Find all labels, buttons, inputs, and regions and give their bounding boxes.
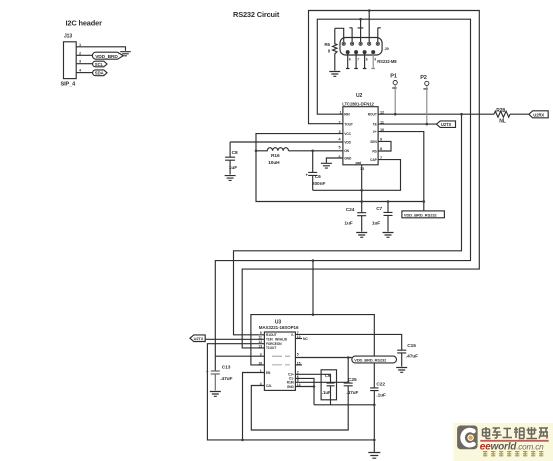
svg-text:VDD_BRD: VDD_BRD — [95, 54, 118, 60]
svg-text:ROUT: ROUT — [368, 113, 377, 117]
wire DB9 pin8 down — [363, 54, 367, 69]
logo chinese title strokes — [483, 427, 549, 439]
wire R28 to U2RX — [510, 113, 529, 115]
U3 pin numbers — [258, 331, 300, 387]
svg-text:3: 3 — [79, 60, 81, 64]
inductor R16 — [256, 148, 289, 151]
svg-text:CAP: CAP — [370, 158, 378, 162]
watermark logo eeworld — [454, 423, 553, 461]
ground below R6 — [329, 72, 340, 77]
svg-text:RS232-M8: RS232-M8 — [377, 59, 397, 64]
svg-text:13: 13 — [360, 167, 364, 171]
svg-text:NL: NL — [499, 118, 506, 124]
svg-text:R1OUT: R1OUT — [266, 333, 277, 337]
svg-text:C6: C6 — [315, 174, 321, 180]
capacitor C8 — [225, 142, 235, 175]
svg-text:TOUT: TOUT — [344, 123, 353, 127]
ground below C8 — [225, 176, 236, 181]
svg-text:eeworld.com.cn: eeworld.com.cn — [480, 442, 544, 453]
ground below C13 — [210, 392, 221, 397]
U2 pin numbers — [339, 110, 385, 171]
svg-text:.1uF: .1uF — [322, 390, 331, 395]
svg-text:200nF: 200nF — [312, 181, 326, 187]
svg-text:1: 1 — [340, 110, 342, 114]
svg-text:VCC: VCC — [344, 132, 351, 136]
svg-text:.47uF: .47uF — [220, 376, 232, 382]
svg-text:10uH: 10uH — [268, 160, 280, 166]
svg-text:.47uF: .47uF — [346, 390, 358, 396]
DB9 pin circles top row — [342, 42, 379, 45]
ground below C15 — [396, 368, 407, 373]
wire DB9 pin5 up no-connect — [378, 28, 381, 42]
svg-text:1: 1 — [79, 43, 81, 47]
wire U2 ROUT net down to U3 pin9 R1OUT — [234, 114, 462, 335]
capacitor C9 box — [321, 370, 336, 400]
ground below C7 — [383, 233, 394, 238]
pin 4 stub J13 — [76, 72, 80, 74]
svg-text:SDA: SDA — [95, 71, 104, 76]
logo red underline — [480, 440, 548, 442]
svg-text:3: 3 — [339, 130, 341, 134]
op-amp U2 body — [343, 107, 378, 165]
wire DB9 pin6 down — [346, 54, 350, 69]
svg-text:C9: C9 — [325, 373, 331, 378]
capacitor C9 — [327, 383, 335, 405]
svg-text:7: 7 — [380, 156, 382, 160]
power label VDD_BRD_RS232 (oval) — [352, 356, 397, 363]
wire U3 V- to C15 — [295, 334, 401, 350]
svg-text:8: 8 — [366, 57, 368, 61]
wire U2 pin12 ROUT to R28 — [378, 113, 494, 115]
U2 right pin names — [368, 113, 378, 162]
svg-text:11: 11 — [258, 336, 262, 340]
svg-text:SCL: SCL — [95, 62, 104, 67]
gnd rail to main vertical — [314, 404, 374, 406]
net label U2RX — [529, 111, 548, 118]
U3 right pin names — [287, 333, 295, 389]
net label SDA — [93, 70, 107, 76]
wire U3 C1- down to gnd rail — [295, 378, 314, 404]
svg-text:J13: J13 — [64, 34, 72, 40]
svg-text:T1OUT: T1OUT — [266, 346, 276, 350]
pin 2 stub J13 — [76, 54, 80, 56]
svg-text:LTC2801-DFN12: LTC2801-DFN12 — [342, 101, 374, 106]
capacitor C25 — [344, 358, 353, 386]
svg-text:C15: C15 — [407, 343, 416, 349]
U3 pin5 stub / wire to VDD oval — [295, 357, 351, 359]
wire J13 pin4 to SDA — [81, 72, 93, 74]
svg-text:INVALID: INVALID — [275, 338, 288, 342]
net label VDD_BRD — [92, 52, 123, 60]
wire DB9 pin9 down — [371, 54, 375, 69]
wire U3 pin3 stub — [215, 355, 264, 357]
U3 body — [264, 332, 295, 390]
wire U2 pin3 loop to U2 pin10 V+ — [256, 132, 424, 202]
wire U3 C1+ to C9 — [295, 374, 330, 383]
svg-text:5: 5 — [297, 353, 299, 357]
svg-text:ON: ON — [344, 149, 349, 153]
wire U3 pin1 EN to gnd rail — [243, 373, 265, 440]
svg-text:T1IN: T1IN — [266, 338, 273, 342]
wire J13 pin3 to SCL — [81, 63, 93, 65]
svg-text:U2TX: U2TX — [194, 336, 204, 341]
power label VDD_BRD_RS232 (box) — [402, 211, 445, 218]
DB9 pin numbers bottom — [349, 57, 377, 61]
svg-text:6: 6 — [339, 155, 341, 159]
wire DB9 pin4 up to outer border — [368, 11, 370, 43]
U3 NC stub pin10 — [295, 338, 302, 340]
U3 internal dashes — [272, 356, 290, 365]
svg-text:R28: R28 — [496, 108, 505, 114]
ground below U2 pin6 — [321, 163, 332, 168]
svg-text:1: 1 — [260, 369, 262, 373]
wire U2 pin1 loop via inner border to U3 pin3/C13 — [215, 19, 470, 370]
wire DB9 pin2 up no-connect — [349, 28, 352, 42]
wire V+ node down to VDD box — [423, 202, 425, 211]
wire DB9 pin3 up to inner border — [358, 19, 364, 42]
wire U2TX to U3 pin11 T1IN — [205, 338, 264, 340]
capacitor C7 — [384, 202, 393, 232]
svg-text:SEN: SEN — [370, 140, 377, 144]
connector J13 body — [64, 42, 77, 79]
capacitor C15 — [397, 350, 406, 366]
svg-text:C8: C8 — [232, 150, 238, 156]
resistor R6 — [333, 28, 337, 70]
wire U3 FORCEON to gnd rail — [207, 344, 374, 440]
svg-text:P2: P2 — [420, 75, 427, 81]
wire R6 top to DB9 pin1 — [335, 28, 344, 42]
svg-text:P1: P1 — [390, 74, 397, 80]
U3 pin15 stub — [295, 364, 302, 366]
logo icon square — [457, 426, 478, 450]
wire J13 pin1 to ground — [81, 47, 126, 51]
wire U2 pin5 to inductor — [289, 150, 343, 152]
net label U2TX (upper) — [437, 121, 456, 128]
ground GND1 — [120, 52, 131, 56]
svg-text:V-: V- — [291, 333, 294, 337]
svg-text:C2L: C2L — [266, 384, 272, 388]
svg-text:MAX3221-16SOP16: MAX3221-16SOP16 — [259, 325, 299, 330]
svg-text:8: 8 — [380, 147, 382, 151]
logo C shape — [463, 430, 474, 445]
svg-text:.47uF: .47uF — [406, 354, 418, 360]
svg-text:13: 13 — [258, 344, 262, 348]
svg-text:NC: NC — [303, 337, 308, 341]
wire U2 pin9 to pin8 loop — [378, 141, 391, 151]
svg-text:11: 11 — [380, 120, 384, 124]
capacitor C24 — [357, 202, 366, 232]
svg-text:9: 9 — [260, 331, 262, 335]
svg-text:5: 5 — [339, 145, 341, 149]
svg-text:1uF: 1uF — [344, 221, 352, 227]
svg-text:10: 10 — [380, 128, 384, 132]
svg-text:R16: R16 — [271, 153, 280, 159]
svg-text:GND: GND — [344, 156, 352, 160]
svg-text:2: 2 — [339, 120, 341, 124]
svg-text:3: 3 — [260, 353, 262, 357]
svg-text:U2TX: U2TX — [441, 122, 452, 127]
ground main (bottom) — [368, 453, 380, 459]
wire U3 pin16 loop over top to C22 and ground — [251, 315, 374, 388]
svg-text:U2: U2 — [356, 93, 363, 99]
wire U2 pin4 VDD to C8 — [230, 141, 343, 143]
wire branch inner border to U3 top loop — [312, 261, 314, 315]
pin 3 stub J13 — [76, 63, 80, 65]
wire U3 R1IN to C25 — [295, 381, 348, 383]
svg-text:C13: C13 — [222, 365, 231, 371]
wire U3 pin4 route to C25 bottom — [251, 386, 348, 431]
svg-text:EN: EN — [266, 371, 271, 375]
wire U2 pin11 TE to U2TX — [378, 123, 436, 125]
svg-text:RS232 Circuit: RS232 Circuit — [233, 10, 280, 19]
svg-text:C7: C7 — [376, 206, 382, 212]
svg-text:7: 7 — [357, 57, 359, 61]
svg-text:SIP_4: SIP_4 — [61, 82, 77, 88]
wire U3 GND pin — [295, 386, 314, 388]
wire DB9 pin7 down — [354, 54, 358, 69]
DB9 pin circles bottom row — [346, 51, 375, 54]
svg-text:4: 4 — [260, 382, 262, 386]
svg-text:I2C header: I2C header — [66, 19, 103, 28]
svg-text:VDD_BRD_RS232: VDD_BRD_RS232 — [404, 212, 438, 217]
ground below C24 — [356, 233, 367, 238]
wire U2 pin2 loop via outer border to U3 pin13 T1OUT — [242, 11, 479, 348]
capacitor C6 — [308, 151, 317, 191]
svg-text:C24: C24 — [346, 207, 355, 213]
resistor R28 — [494, 111, 510, 117]
svg-text:.1uF: .1uF — [376, 393, 386, 399]
svg-text:2: 2 — [79, 51, 81, 55]
svg-text:16: 16 — [258, 361, 262, 365]
U3 left pin names — [266, 333, 288, 388]
capacitor C13 — [211, 371, 220, 391]
wire C6 bottom to U2 pin7 CAP — [313, 160, 401, 191]
svg-text:9: 9 — [380, 138, 382, 142]
svg-text:pad: pad — [356, 161, 362, 165]
net label U2TX (lower) — [190, 335, 205, 342]
connector J9 DB9 body — [340, 38, 382, 56]
svg-text:1uF: 1uF — [229, 165, 237, 171]
svg-text:V+: V+ — [373, 130, 377, 134]
svg-text:U2RX: U2RX — [533, 112, 544, 117]
wire J13 pin2 to VDD_BRD — [81, 54, 93, 56]
svg-text:VDD_BRD_RS232: VDD_BRD_RS232 — [354, 358, 387, 363]
svg-text:9: 9 — [374, 57, 376, 61]
svg-text:C22: C22 — [376, 382, 385, 388]
logo small slogan strokes — [483, 452, 543, 456]
svg-text:1uF: 1uF — [372, 221, 380, 227]
svg-text:RIN: RIN — [344, 113, 350, 117]
U2 left pin names — [344, 113, 361, 165]
svg-text:6: 6 — [349, 57, 351, 61]
svg-text:GND: GND — [287, 385, 295, 389]
svg-text:R6: R6 — [324, 42, 330, 47]
wire U2 pin6 GND — [326, 158, 343, 163]
svg-text:VDD: VDD — [344, 140, 351, 144]
pin 1 stub J13 — [76, 46, 80, 48]
capacitor C22 — [370, 388, 378, 453]
net label SCL — [93, 61, 107, 67]
wire U2 pad13 down — [361, 165, 363, 202]
svg-text:12: 12 — [380, 110, 384, 114]
